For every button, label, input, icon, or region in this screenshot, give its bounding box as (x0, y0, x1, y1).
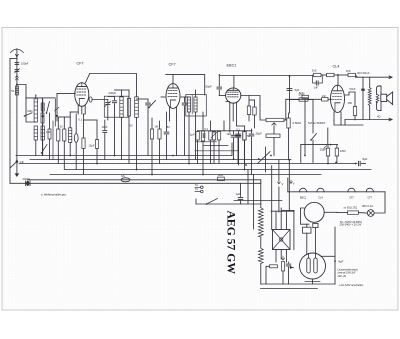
switch mains2 (311, 134, 317, 141)
output transformer primary (368, 88, 371, 106)
volume pot (266, 118, 284, 121)
cap (286, 263, 291, 265)
wire to speaker top (356, 76, 390, 78)
speaker driver (381, 94, 387, 101)
choke DrS2 (348, 73, 356, 76)
IF transformer 2 screen box (186, 95, 207, 117)
svg-text:38V 0.1A: 38V 0.1A (362, 204, 373, 208)
svg-text:1250: 1250 (340, 149, 346, 153)
svg-text:1M: 1M (155, 125, 159, 129)
svg-text:DrS: DrS (346, 69, 351, 73)
small cap (146, 102, 151, 104)
resistor 4uF (201, 131, 204, 141)
svg-text:50nF: 50nF (350, 87, 356, 91)
trimmer arrow (55, 107, 60, 111)
antenna (11, 49, 24, 52)
scale lamp (367, 210, 374, 217)
selector wires top (275, 212, 277, 230)
resistor (41, 113, 44, 123)
dial drive circle (304, 202, 324, 222)
heater CF7 (348, 188, 355, 192)
ground chassis (16, 160, 19, 163)
capacitor 240pF series (26, 181, 29, 186)
cap in row (202, 134, 204, 138)
coil 150A (34, 126, 37, 140)
switch power (207, 199, 218, 205)
internal elements (307, 258, 310, 273)
bus verticals right (260, 180, 262, 204)
node junction (16, 84, 18, 86)
heater CL4 (317, 188, 324, 192)
wire antenna lead (16, 57, 18, 162)
coil ticks (41, 103, 44, 111)
right loop (241, 96, 260, 119)
cap (209, 131, 212, 140)
capacitor trimmer (15, 69, 19, 71)
svg-text:xx 50Ω 17Ω: xx 50Ω 17Ω (344, 206, 358, 210)
wire top bus segC (219, 75, 312, 77)
connector rect below dial (313, 223, 318, 227)
pot arrow (282, 262, 285, 272)
heater EBC1 (299, 188, 306, 192)
svg-text:0.1: 0.1 (79, 118, 83, 122)
svg-text:EBC1: EBC1 (227, 64, 237, 68)
wire (42, 99, 44, 126)
svg-text:CL4: CL4 (333, 65, 340, 69)
svg-text:60pF: 60pF (206, 85, 213, 89)
svg-text:CF7: CF7 (169, 63, 176, 67)
svg-text:TA: TA (11, 89, 14, 93)
svg-text:a. Wellenschalter gez.: a. Wellenschalter gez. (41, 193, 67, 197)
wire left rail bottom (9, 160, 11, 183)
capacitor 100pF (15, 62, 19, 64)
wire selector side (293, 211, 295, 250)
svg-text:0.1: 0.1 (205, 127, 209, 131)
svg-text:1kΩ: 1kΩ (218, 173, 223, 177)
wire top segB (166, 75, 205, 95)
bottom wire 2 (261, 287, 318, 289)
svg-text:5nF: 5nF (299, 91, 304, 95)
coil L1 (15, 86, 18, 95)
Urdox tube circle (300, 253, 326, 279)
speaker frame (377, 86, 381, 111)
tube CL4 (331, 85, 345, 112)
tube2 grid side (161, 96, 165, 98)
bus 5 (50, 174, 321, 176)
urdox bottom (312, 279, 314, 284)
lamp resistor (348, 211, 359, 214)
B+ rail (289, 76, 291, 113)
switch wave (42, 145, 48, 154)
bottom wire (261, 283, 335, 285)
coil IF1a tall (120, 97, 123, 118)
cap 5nF (302, 95, 309, 98)
grid resistor oval (74, 134, 78, 143)
wire branch right (17, 85, 36, 123)
wire speaker top/bottom (380, 86, 382, 94)
cap 5uF (287, 88, 292, 90)
bus 4 (65, 169, 371, 171)
switch band (47, 102, 50, 114)
bottom line L7 (10, 182, 261, 184)
wire EBC1 top (233, 76, 235, 88)
svg-text:8μF: 8μF (363, 157, 368, 161)
diode plates (226, 101, 230, 103)
wire top feed segA (90, 74, 137, 97)
wire circle left loop (301, 208, 310, 224)
svg-text:4Ω: 4Ω (377, 115, 380, 119)
long switch diagonal (258, 152, 271, 164)
tube2 pins (169, 108, 171, 117)
wire tube1 top to segA (85, 74, 90, 84)
capacitor 15uF (95, 140, 98, 149)
svg-text:DrS: DrS (312, 69, 317, 73)
switch (149, 101, 156, 108)
svg-text:CF7: CF7 (349, 196, 354, 199)
heater dropper zigzag (258, 208, 263, 238)
tube1 side electrode (89, 97, 92, 102)
svg-text:40V 60mA: 40V 60mA (357, 71, 370, 75)
verticals (247, 170, 249, 205)
wire tube1 grid left (57, 92, 75, 94)
svg-text:0.1: 0.1 (236, 128, 240, 132)
resistor under tube (82, 138, 85, 148)
bus 6 with fuse (28, 179, 261, 181)
cap (164, 131, 169, 133)
cap across (182, 102, 187, 104)
wire tube2 top stub (172, 75, 174, 84)
cap 0.1 to CL4 grid (322, 98, 329, 101)
coil 4464A (34, 98, 37, 122)
tube EBC1 (226, 88, 241, 103)
caps small (103, 130, 107, 132)
resistor on bus (327, 73, 335, 76)
svg-text:50: 50 (247, 134, 250, 138)
extra bottom line (234, 200, 282, 202)
wire (35, 140, 37, 156)
choke with bypass (314, 73, 322, 76)
svg-text:TA: TA (195, 184, 198, 187)
CL4 pins (333, 112, 335, 120)
resistor mid (127, 98, 130, 116)
bus 1 (16, 155, 232, 157)
band filter screen box (104, 96, 129, 117)
svg-text:1nF: 1nF (322, 94, 327, 98)
svg-text:TA: TA (195, 188, 198, 191)
svg-text:1μF: 1μF (190, 133, 195, 137)
box 50nF (299, 98, 308, 101)
wire from urdox right (321, 255, 335, 257)
svg-text:1kΩ: 1kΩ (226, 132, 231, 136)
zigzag 2 (258, 248, 263, 264)
resistor r2 (48, 129, 51, 139)
switch lever left (25, 113, 33, 116)
svg-text:GS: GS (121, 174, 125, 178)
resistor (253, 107, 256, 115)
svg-text:5nF bis 50/60Hz: 5nF bis 50/60Hz (308, 122, 326, 125)
cap 25uF (326, 148, 329, 156)
resistor r3 (57, 129, 60, 141)
wire stubs (196, 141, 217, 143)
svg-text:V: V (293, 182, 295, 186)
resistor 0.5M (287, 118, 290, 128)
resistor 150 (353, 107, 356, 116)
svg-text:0.5MΩ: 0.5MΩ (293, 121, 301, 125)
wire diagonal to left rail (10, 162, 17, 169)
bus 7 (196, 203, 261, 205)
svg-text:V: V (282, 182, 284, 186)
svg-text:1nF: 1nF (314, 86, 319, 90)
svg-text:15μF: 15μF (89, 144, 95, 148)
output transformer secondary (376, 95, 379, 103)
resistor 1250 (335, 148, 338, 156)
svg-text:150: 150 (46, 130, 51, 134)
junction blobs (42, 115, 44, 117)
svg-text:20V~40: 20V~40 (337, 275, 347, 278)
junction dots (69, 155, 71, 157)
svg-text:200-240V + 20 1%: 200-240V + 20 1% (340, 223, 362, 227)
cap black (361, 89, 364, 91)
selector wires bottom (275, 250, 277, 263)
wire feed (301, 144, 338, 146)
cap 8uF (357, 161, 359, 165)
earth arrow (16, 162, 18, 175)
svg-text:1μF: 1μF (236, 192, 241, 196)
antenna ticks (15, 75, 18, 80)
trimmer cap (106, 102, 110, 104)
resistor r4 (63, 129, 66, 141)
svg-text:25μF: 25μF (320, 148, 327, 152)
resistor 1k on bus (218, 177, 225, 181)
svg-text:150: 150 (348, 101, 353, 105)
bar 1M (266, 134, 280, 137)
tube CF7 (1) (75, 83, 89, 107)
junction to CL4 (334, 74, 348, 76)
coil right (41, 126, 44, 140)
wire CL4 anode side (345, 92, 355, 95)
svg-text:240pF: 240pF (109, 91, 117, 95)
bus 3 (19, 163, 357, 165)
bus 2 (30, 159, 291, 161)
cathode wires (334, 120, 363, 125)
connector rect 2 (303, 227, 312, 233)
resistor small (270, 265, 278, 268)
svg-text:240pF: 240pF (23, 177, 31, 181)
coil det (69, 128, 72, 143)
pickup terminals (195, 186, 201, 188)
cap 0.1 (247, 106, 250, 115)
right loop down (374, 192, 385, 213)
caps below EBC1 (236, 133, 241, 135)
tube CF7 (2) (166, 84, 180, 109)
voltage selector crossed box (273, 230, 291, 250)
svg-text:8μF: 8μF (339, 260, 344, 264)
wire circle right (324, 211, 337, 213)
wire speaker left rail (362, 77, 364, 119)
speaker cone (387, 92, 393, 105)
svg-text:CF7: CF7 (77, 62, 84, 66)
svg-text:10nF: 10nF (102, 125, 108, 129)
svg-text:CF7: CF7 (368, 196, 373, 199)
svg-text:EBC1: EBC1 (300, 196, 307, 199)
EBC1 pins (229, 103, 231, 133)
bottom wire to arrow (345, 119, 390, 121)
svg-text:100pF: 100pF (21, 62, 29, 66)
svg-text:AEG 57 GW: AEG 57 GW (225, 211, 239, 275)
coil IF1b fed from top (135, 97, 139, 118)
resistor 1M (150, 129, 153, 139)
resistor (158, 129, 161, 139)
svg-text:CL4: CL4 (318, 196, 323, 199)
heater chain (288, 191, 385, 193)
arrow to urdox (290, 266, 293, 269)
svg-text:25μF: 25μF (256, 132, 263, 136)
IF transformer 2 (187, 97, 190, 112)
tube1 pins (77, 105, 79, 114)
svg-text:+ bei 220V anschalten: + bei 220V anschalten (339, 284, 364, 287)
wire left outer (10, 58, 17, 60)
row top wire (198, 130, 252, 132)
heater CF7 (366, 188, 373, 192)
component row (196, 132, 199, 141)
